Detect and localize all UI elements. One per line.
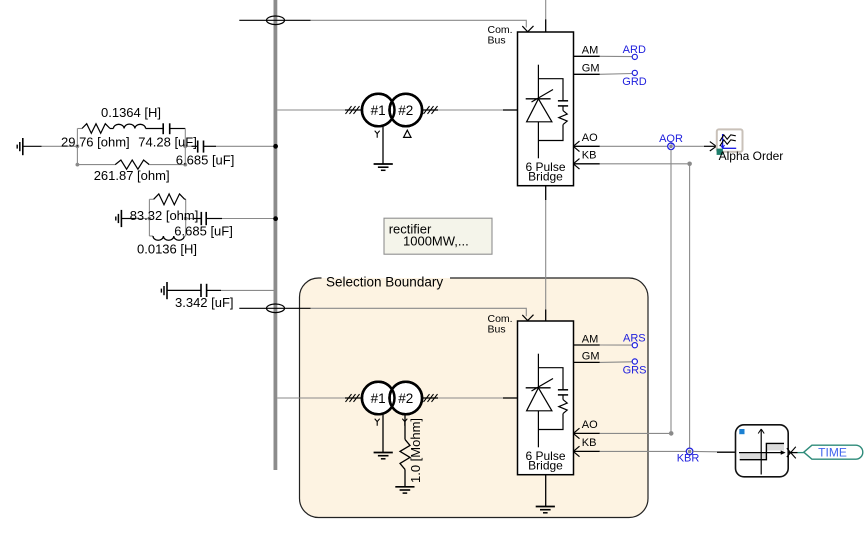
svg-text:TIME: TIME <box>818 446 847 460</box>
svg-text:0.1364 [H]: 0.1364 [H] <box>101 105 161 120</box>
svg-text:ARD: ARD <box>623 44 646 56</box>
svg-text:261.87 [ohm]: 261.87 [ohm] <box>94 168 170 183</box>
svg-text:GRD: GRD <box>622 76 647 88</box>
svg-text:ARS: ARS <box>623 332 646 344</box>
svg-text:Bus: Bus <box>488 323 506 335</box>
svg-text:Alpha Order: Alpha Order <box>719 149 784 163</box>
svg-text:AM: AM <box>582 333 599 345</box>
svg-text:#1: #1 <box>371 391 386 406</box>
svg-text:KB: KB <box>582 150 597 162</box>
svg-text:Bridge: Bridge <box>528 170 563 184</box>
svg-text:74.28 [uF]: 74.28 [uF] <box>138 135 197 150</box>
svg-text:AO: AO <box>582 132 598 144</box>
svg-text:AQR: AQR <box>659 133 683 145</box>
svg-text:#2: #2 <box>398 103 413 118</box>
svg-text:#2: #2 <box>398 391 413 406</box>
svg-text:GM: GM <box>582 351 600 363</box>
svg-text:0.0136 [H]: 0.0136 [H] <box>137 242 197 257</box>
svg-text:#1: #1 <box>371 103 386 118</box>
svg-text:6.685 [uF]: 6.685 [uF] <box>176 152 235 167</box>
svg-text:83.32 [ohm]: 83.32 [ohm] <box>130 208 199 223</box>
svg-text:AM: AM <box>582 45 599 57</box>
svg-text:GRS: GRS <box>623 364 647 376</box>
svg-text:AO: AO <box>582 419 598 431</box>
svg-text:Selection Boundary: Selection Boundary <box>326 275 443 290</box>
svg-text:Bridge: Bridge <box>528 459 563 473</box>
svg-text:KBR: KBR <box>677 452 700 464</box>
svg-text:GM: GM <box>582 63 600 75</box>
svg-text:1000MW,...: 1000MW,... <box>403 234 469 249</box>
svg-text:29.76 [ohm]: 29.76 [ohm] <box>61 135 130 150</box>
svg-text:Bus: Bus <box>488 34 506 46</box>
svg-text:3.342 [uF]: 3.342 [uF] <box>175 295 234 310</box>
svg-text:KB: KB <box>582 437 597 449</box>
svg-text:1.0 [Mohm]: 1.0 [Mohm] <box>408 418 423 483</box>
svg-text:6.685 [uF]: 6.685 [uF] <box>174 224 233 239</box>
